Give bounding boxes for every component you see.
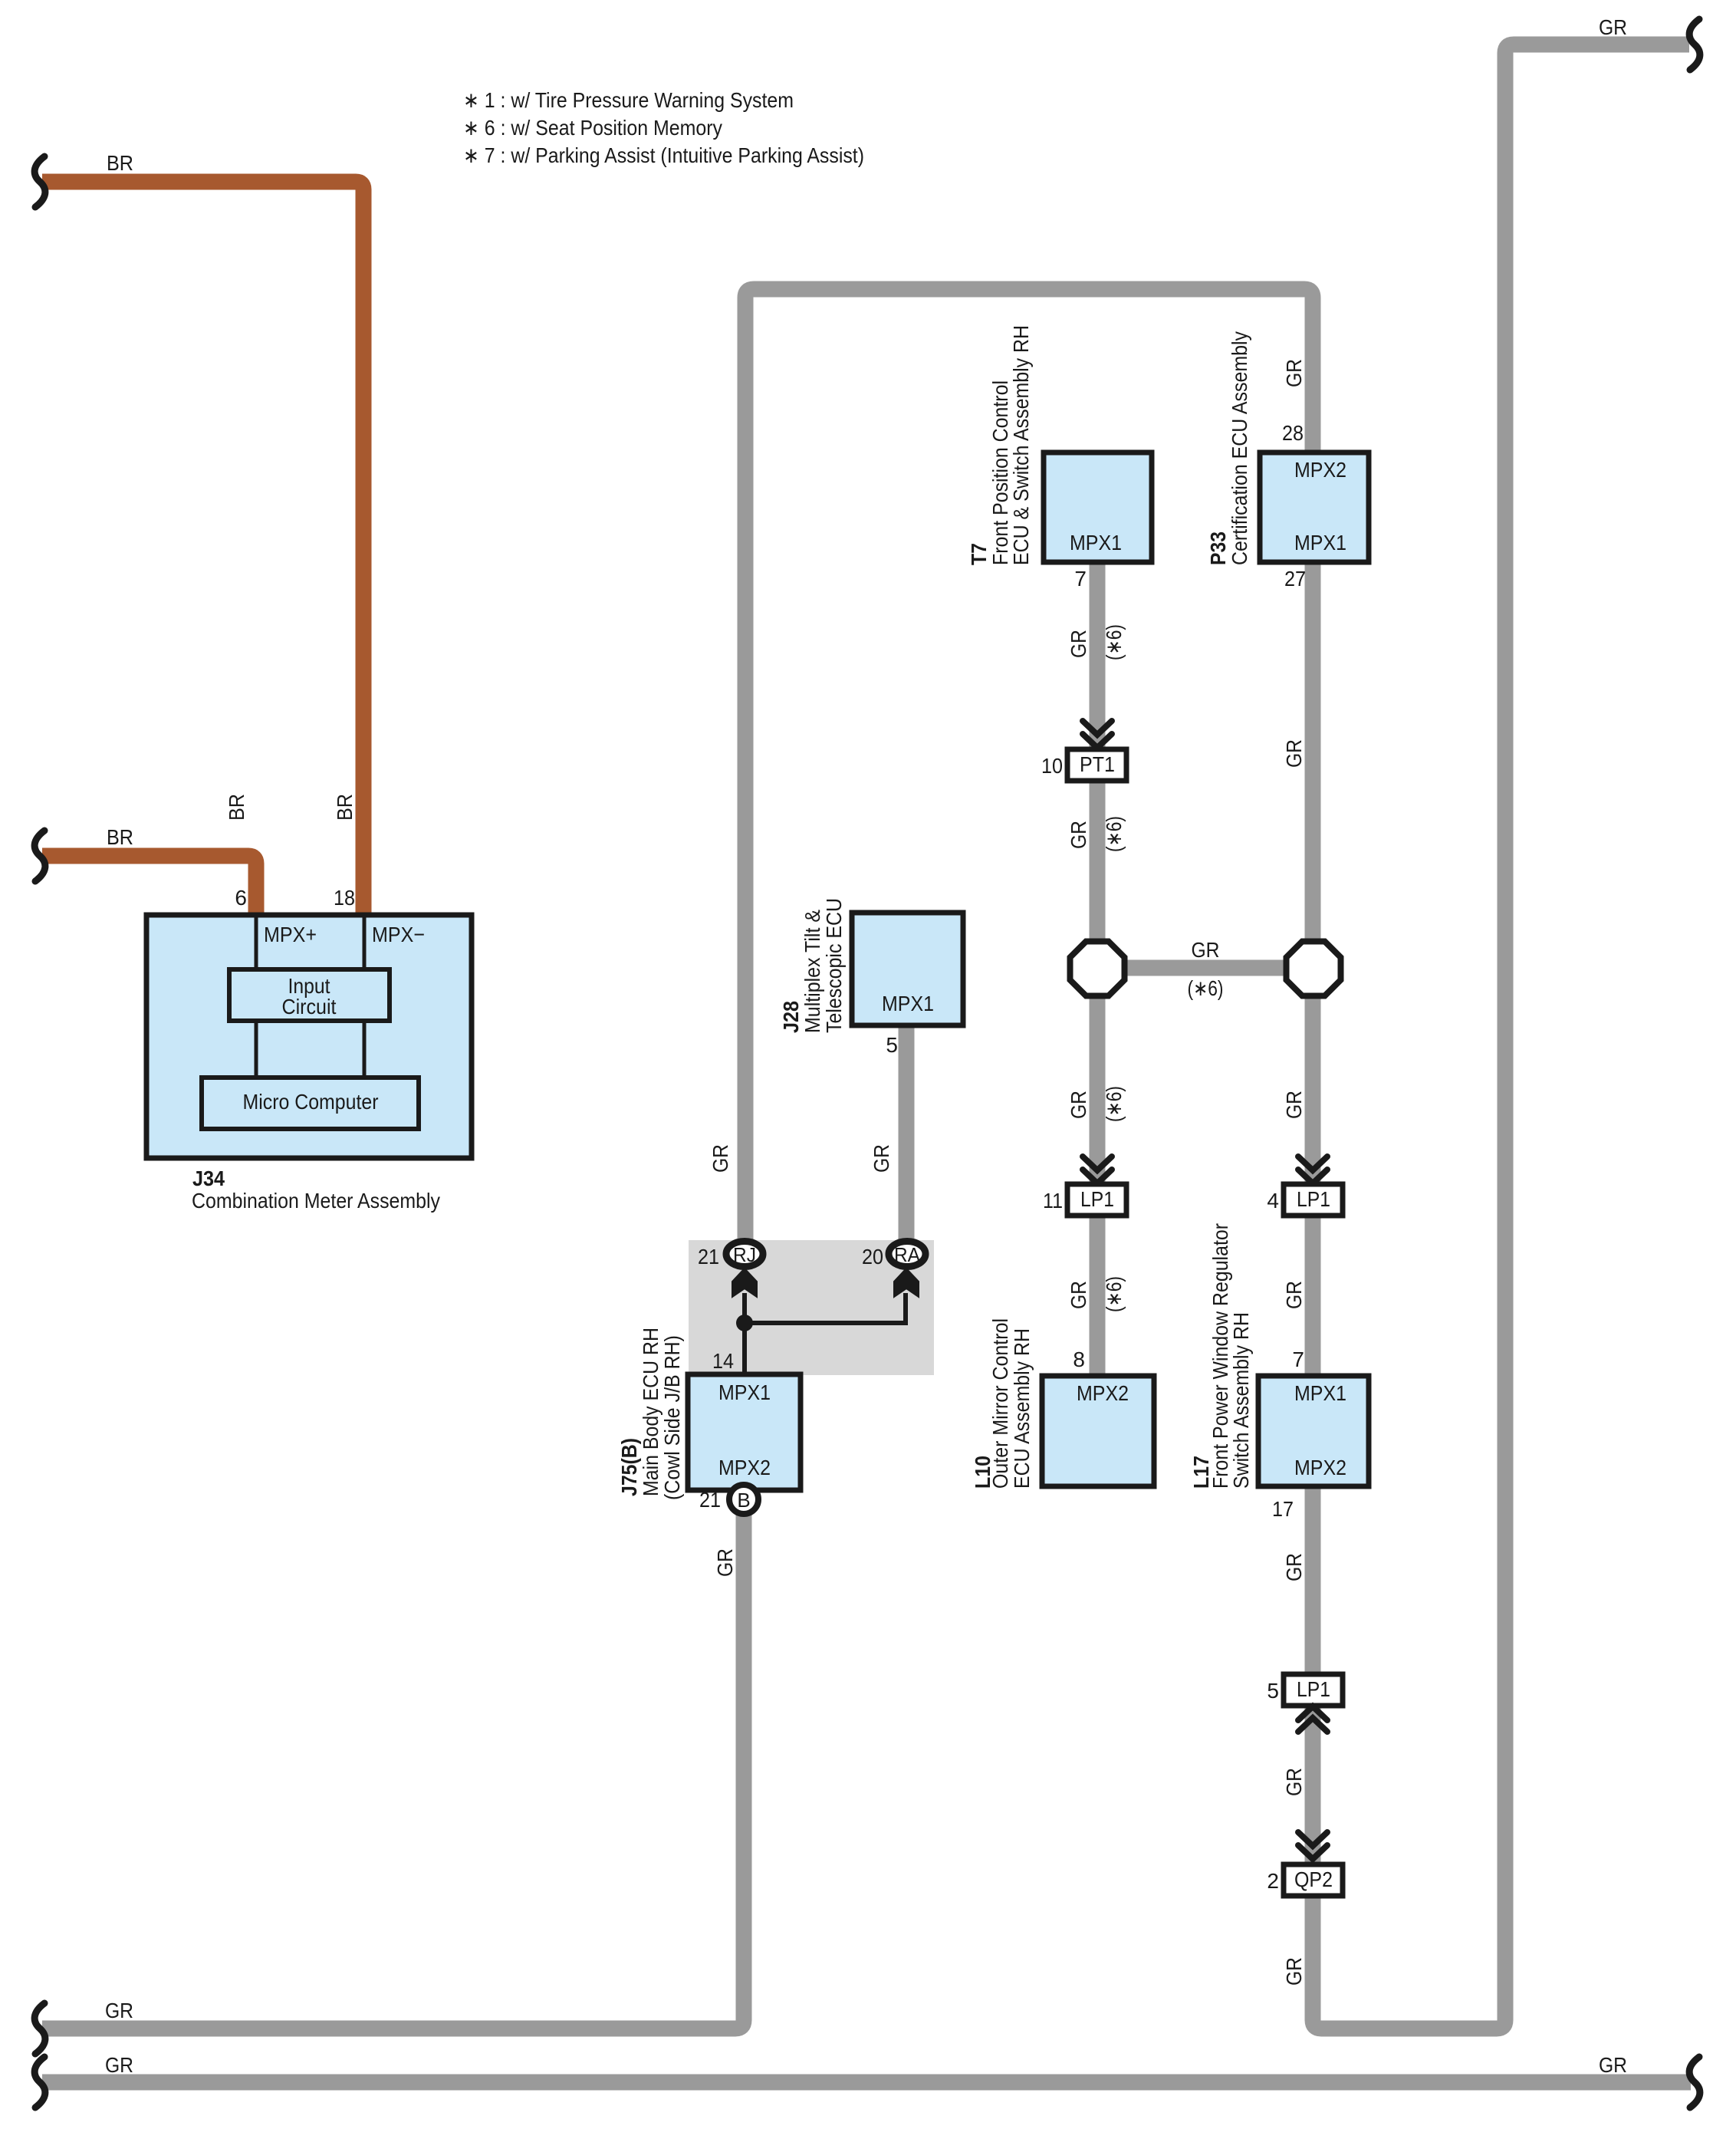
svg-text:∗ 1 : w/ Tire Pressure Warning: ∗ 1 : w/ Tire Pressure Warning System xyxy=(463,88,794,112)
J75(B) Main Body ECU box xyxy=(688,1374,801,1490)
connector QP2 pin 2 xyxy=(1284,1864,1343,1896)
squiggle BR1 xyxy=(35,156,45,207)
svg-text:(∗6): (∗6) xyxy=(1102,624,1126,660)
svg-text:MPX1: MPX1 xyxy=(1070,531,1122,554)
squiggle BR2 xyxy=(35,831,45,881)
svg-text:BR: BR xyxy=(107,825,133,849)
squiggle GR wireB left xyxy=(35,2057,45,2108)
chevron arrows below LP1-5 pointing up xyxy=(1298,1706,1327,1732)
svg-text:RJ: RJ xyxy=(733,1243,756,1266)
svg-text:J34: J34 xyxy=(192,1167,225,1190)
svg-text:Certification ECU Assembly: Certification ECU Assembly xyxy=(1228,331,1251,565)
svg-text:J75(B): J75(B) xyxy=(617,1438,641,1496)
svg-text:ECU Assembly RH: ECU Assembly RH xyxy=(1010,1328,1034,1489)
svg-text:P33: P33 xyxy=(1206,531,1230,565)
svg-text:MPX2: MPX2 xyxy=(1294,458,1346,482)
chevron arrows above LP1-11 xyxy=(1083,1157,1112,1183)
wire GR bus RJ to P33 MPX2 xyxy=(745,289,1313,1246)
wire GR P33 pin27 down to L17 MPX1 xyxy=(1305,562,1321,1377)
wire GR L17 MPX2 down, right and up to top-right xyxy=(1313,44,1689,2029)
svg-text:B: B xyxy=(737,1489,750,1512)
svg-text:5: 5 xyxy=(1267,1679,1279,1703)
L10 Outer Mirror Control ECU Assembly RH box xyxy=(1042,1376,1154,1486)
svg-text:MPX2: MPX2 xyxy=(1077,1381,1129,1405)
svg-text:(Cowl Side J/B RH): (Cowl Side J/B RH) xyxy=(660,1335,684,1500)
svg-text:GR: GR xyxy=(870,1144,893,1173)
shaded junction-block region xyxy=(689,1240,934,1375)
svg-text:GR: GR xyxy=(1599,15,1627,39)
svg-text:T7: T7 xyxy=(967,543,991,565)
svg-text:MPX−: MPX− xyxy=(372,923,425,946)
connector PT1 xyxy=(1067,749,1126,781)
svg-text:5: 5 xyxy=(886,1033,898,1057)
J34 divider pin6 xyxy=(255,917,258,969)
squiggle GR wireA left xyxy=(35,2003,45,2054)
svg-text:MPX1: MPX1 xyxy=(1294,1381,1346,1405)
svg-text:GR: GR xyxy=(1599,2053,1627,2077)
wire BR2 to J34 pin 6 xyxy=(42,856,256,917)
svg-text:8: 8 xyxy=(1073,1347,1085,1371)
octagon node left xyxy=(1070,942,1125,996)
svg-text:GR: GR xyxy=(1282,1553,1306,1581)
svg-text:ECU & Switch Assembly RH: ECU & Switch Assembly RH xyxy=(1009,325,1033,565)
svg-text:27: 27 xyxy=(1284,567,1306,591)
svg-text:Main Body ECU RH: Main Body ECU RH xyxy=(639,1328,663,1496)
T7 Front Position Control ECU & Switch Assembly RH box xyxy=(1044,452,1152,562)
svg-text:GR: GR xyxy=(1192,938,1220,962)
arrow up to RA xyxy=(894,1269,919,1297)
J34 link input to micro left xyxy=(255,1020,258,1080)
svg-text:10: 10 xyxy=(1041,754,1063,778)
svg-text:21: 21 xyxy=(698,1245,719,1269)
connector LP1 pin 11 xyxy=(1067,1184,1126,1216)
wire GR bottom full width xyxy=(42,2075,1691,2091)
J34 divider pin18 xyxy=(363,917,367,969)
J34 Combination Meter Assembly box xyxy=(146,915,472,1158)
svg-text:(∗6): (∗6) xyxy=(1102,1086,1126,1122)
svg-text:MPX1: MPX1 xyxy=(718,1380,771,1404)
svg-text:18: 18 xyxy=(334,886,355,910)
thin line pin14 to junction xyxy=(742,1293,747,1376)
wire GR octagon link xyxy=(1097,960,1313,976)
svg-text:RA: RA xyxy=(894,1243,921,1266)
wire GR J75 B circle down to bottom-left xyxy=(42,1515,744,2029)
svg-text:GR: GR xyxy=(1067,821,1090,849)
svg-text:BR: BR xyxy=(107,151,133,175)
chevron arrows above LP1-4 xyxy=(1298,1157,1327,1183)
svg-text:GR: GR xyxy=(105,2053,133,2077)
svg-text:∗ 6 : w/ Seat Position Memory: ∗ 6 : w/ Seat Position Memory xyxy=(463,116,722,140)
svg-text:BR: BR xyxy=(333,794,357,821)
svg-text:MPX2: MPX2 xyxy=(1294,1456,1346,1479)
svg-text:GR: GR xyxy=(1282,1091,1306,1119)
connector LP1 pin 5 xyxy=(1284,1674,1343,1706)
thin line junction to RA xyxy=(745,1293,906,1323)
svg-text:Switch Assembly RH: Switch Assembly RH xyxy=(1229,1312,1253,1489)
P33 Certification ECU Assembly box xyxy=(1260,452,1369,562)
svg-text:Micro Computer: Micro Computer xyxy=(243,1090,379,1114)
junction dot xyxy=(736,1315,753,1331)
svg-text:Telescopic ECU: Telescopic ECU xyxy=(822,898,846,1033)
svg-text:GR: GR xyxy=(1067,630,1090,658)
svg-text:GR: GR xyxy=(1282,359,1306,387)
connector LP1 pin 4 xyxy=(1284,1184,1343,1216)
svg-text:(∗6): (∗6) xyxy=(1102,816,1126,852)
svg-text:LP1: LP1 xyxy=(1080,1187,1114,1211)
svg-text:PT1: PT1 xyxy=(1080,752,1115,776)
svg-text:MPX2: MPX2 xyxy=(718,1456,771,1479)
svg-text:GR: GR xyxy=(105,1999,133,2022)
svg-text:7: 7 xyxy=(1292,1347,1304,1371)
svg-text:LP1: LP1 xyxy=(1297,1187,1330,1211)
svg-text:GR: GR xyxy=(1067,1281,1090,1309)
J34 link input to micro right xyxy=(363,1020,367,1080)
squiggle GR wireB right xyxy=(1689,2057,1700,2108)
svg-text:4: 4 xyxy=(1267,1189,1279,1213)
svg-text:17: 17 xyxy=(1272,1497,1294,1521)
svg-text:14: 14 xyxy=(712,1349,734,1373)
input circuit box xyxy=(229,969,390,1021)
svg-text:GR: GR xyxy=(1282,1957,1306,1986)
svg-text:J28: J28 xyxy=(779,1001,803,1033)
chevron arrows above PT1 xyxy=(1083,721,1112,748)
svg-text:7: 7 xyxy=(1074,567,1087,591)
svg-text:2: 2 xyxy=(1267,1869,1279,1893)
L17 Front Power Window Regulator Switch Assembly RH box xyxy=(1258,1376,1369,1486)
svg-text:GR: GR xyxy=(1067,1091,1090,1119)
svg-text:Multiplex Tilt &: Multiplex Tilt & xyxy=(801,910,824,1033)
svg-text:GR: GR xyxy=(1282,1281,1306,1309)
svg-text:MPX1: MPX1 xyxy=(1294,531,1346,554)
svg-text:GR: GR xyxy=(709,1144,732,1173)
svg-text:BR: BR xyxy=(225,794,248,821)
chevron arrows above QP2 xyxy=(1298,1832,1327,1859)
svg-text:GR: GR xyxy=(713,1548,737,1577)
wire BR1 to J34 pin 18 xyxy=(42,182,363,917)
wire GR T7 pin7 down to L10 MPX2 xyxy=(1090,562,1106,1377)
micro computer box xyxy=(202,1078,419,1129)
svg-text:(∗6): (∗6) xyxy=(1102,1276,1126,1312)
svg-text:20: 20 xyxy=(862,1245,883,1269)
octagon node right xyxy=(1287,942,1341,996)
svg-text:GR: GR xyxy=(1282,1768,1306,1796)
RA ellipse xyxy=(889,1242,926,1267)
arrow up to RJ xyxy=(732,1269,757,1297)
svg-text:11: 11 xyxy=(1043,1189,1063,1213)
svg-text:MPX+: MPX+ xyxy=(264,923,317,946)
svg-text:Combination Meter Assembly: Combination Meter Assembly xyxy=(192,1189,440,1213)
svg-text:Outer Mirror Control: Outer Mirror Control xyxy=(988,1318,1012,1489)
svg-text:GR: GR xyxy=(1282,739,1306,768)
wire GR J28 pin5 to RA xyxy=(899,1024,915,1246)
svg-text:21: 21 xyxy=(699,1488,721,1512)
svg-text:LP1: LP1 xyxy=(1297,1677,1330,1701)
svg-text:Circuit: Circuit xyxy=(282,995,337,1018)
J28 Multiplex Tilt & Telescopic ECU box xyxy=(852,913,963,1025)
svg-text:∗ 7 : w/ Parking Assist (Intui: ∗ 7 : w/ Parking Assist (Intuitive Parki… xyxy=(463,143,864,167)
B circle on J75 MPX2 xyxy=(729,1485,758,1514)
svg-text:QP2: QP2 xyxy=(1294,1867,1333,1891)
RJ ellipse xyxy=(726,1242,763,1267)
svg-text:MPX1: MPX1 xyxy=(882,992,934,1015)
squiggle GR top right xyxy=(1689,19,1700,70)
svg-text:28: 28 xyxy=(1282,421,1304,445)
svg-text:(∗6): (∗6) xyxy=(1188,976,1224,1000)
svg-text:6: 6 xyxy=(235,886,247,910)
